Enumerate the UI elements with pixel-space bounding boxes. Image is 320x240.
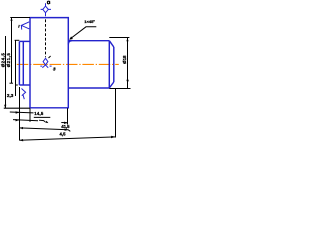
bottom extension line left [4,107,30,109]
svg-text:Ø21,5: Ø21,5 [6,53,11,68]
dim4 left arrow [19,139,23,141]
arrow B top [10,18,12,21]
body top edge [68,40,109,42]
dim3 text [61,124,70,129]
dim1 left arrow [16,111,20,113]
extension below flange left face [29,108,31,122]
long extension from hub face [19,87,21,140]
end chamfer bottom [109,82,114,88]
chamfer text [84,19,95,24]
arrow tick near center symbol [49,56,51,58]
dim2 left arrow [15,119,19,121]
extension line C [15,40,17,96]
dimension line 4 [19,137,115,140]
dimension line 1 [10,111,34,114]
corner tick at hub [15,39,20,41]
chamfer leader [70,27,96,39]
label 3 [53,67,56,73]
dim3 mid arrow [65,129,69,131]
right dim arrow top [126,38,128,41]
chamfer start line [108,41,110,88]
hub top edge [19,40,30,42]
hub bottom extension tick [15,84,18,86]
left diameter text 1 [0,53,5,68]
dim4 text [60,132,67,137]
end face [113,47,115,82]
dim1 text [34,111,44,116]
roughness symbol bottom-left [22,89,26,100]
support symbol center (diamond on axis) [40,58,51,68]
roughness symbol top-left [21,22,29,30]
svg-text:4,5: 4,5 [60,132,67,137]
dimension line 3 [19,128,68,130]
svg-text:41,5: 41,5 [61,124,70,129]
right diameter text [122,55,127,64]
svg-text:3: 3 [53,67,56,73]
centerline axis [17,63,119,65]
text 2,3 [7,93,14,98]
right dim arrow bottom [126,80,128,84]
extension from end face bottom [115,88,117,137]
svg-text:14,5: 14,5 [34,111,44,116]
small leader mark between dims [39,120,48,123]
left diameter text 2 [6,53,11,68]
dimension line 2 [13,120,68,123]
support symbol top (diamond) [41,3,51,16]
dimension line A vertical [5,36,7,108]
hub face [18,41,20,85]
svg-text:Ø24,5: Ø24,5 [0,53,5,68]
corner fillet at flange-body junction [68,41,72,45]
top extension line left [10,17,30,19]
svg-text:1×45°: 1×45° [84,19,95,24]
chamfer leader arrow [69,36,73,39]
label a [47,1,49,4]
end chamfer top [109,41,114,47]
dim3 end tick [68,130,70,132]
right bottom extension [109,88,130,90]
body bottom edge [68,87,109,89]
dim2 right arrow [64,122,68,124]
dim3 left arrow [20,127,24,129]
hidden axis dashed line [45,19,47,57]
dimension line B vertical [10,18,14,84]
flange outline [30,18,68,108]
right top extension [109,37,129,39]
tick near roughness symbol [18,25,21,28]
extension below flange right [67,108,69,124]
arrow A bottom [4,105,6,108]
hub inner line [22,41,24,85]
right diameter dimension line [127,38,129,89]
dim1 text underline [34,116,51,118]
svg-text:2,3: 2,3 [7,93,14,98]
hub bottom edge [19,84,30,86]
svg-text:Ø18: Ø18 [122,55,127,64]
dim4 right arrow [111,136,116,139]
